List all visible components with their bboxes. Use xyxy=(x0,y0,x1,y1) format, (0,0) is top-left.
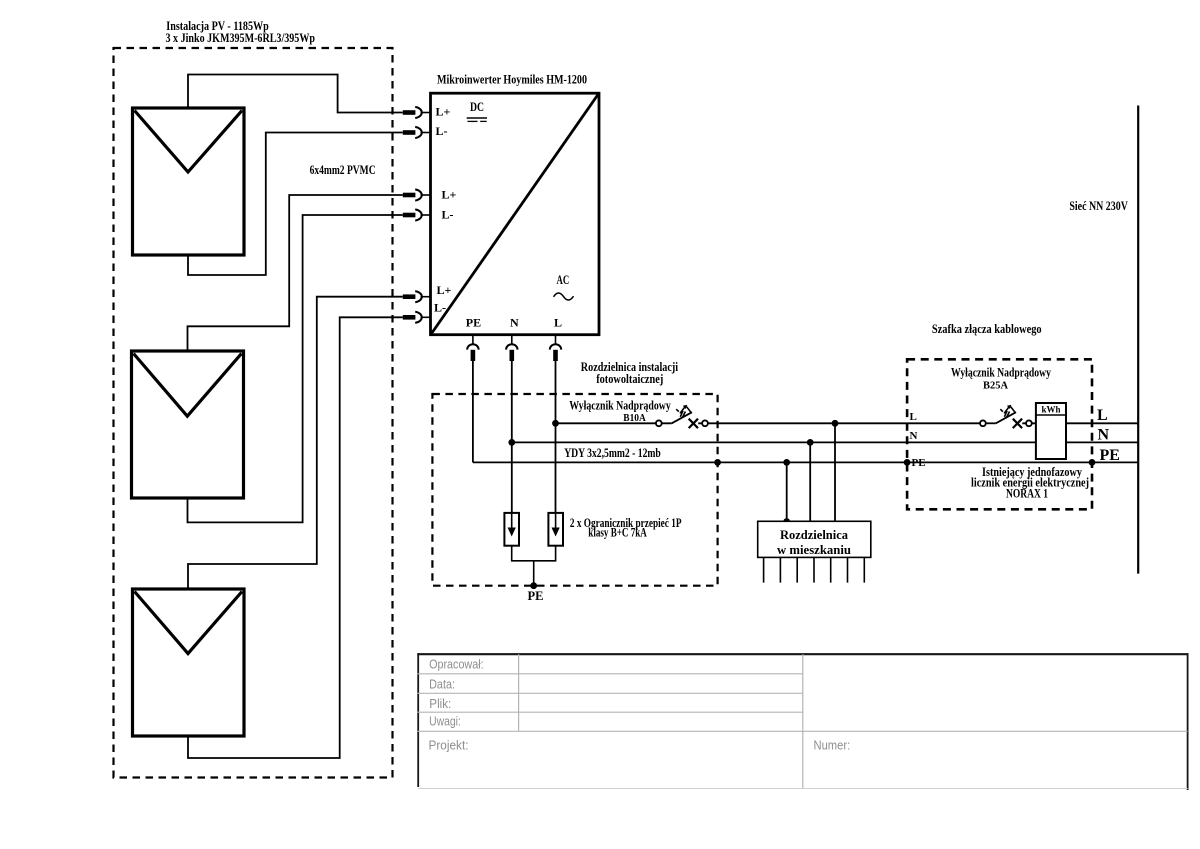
surge arrester label xyxy=(570,516,682,540)
wire PV2+ to inverter input3 xyxy=(188,195,403,351)
wire surge arresters to PE node xyxy=(512,546,556,586)
svg-text:Numer:: Numer: xyxy=(814,738,851,753)
title block frame xyxy=(417,653,1188,790)
svg-text:PE: PE xyxy=(528,589,544,603)
PV panel PV1 xyxy=(133,108,245,255)
svg-text:6x4mm2 PVMC: 6x4mm2 PVMC xyxy=(310,163,376,177)
junction at apartment board top xyxy=(783,518,790,525)
PV panel PV2 xyxy=(132,351,244,498)
svg-text:Projekt:: Projekt: xyxy=(429,738,469,753)
svg-text:L-: L- xyxy=(434,301,446,315)
junction N bus to apartment board xyxy=(807,439,814,446)
title block labels xyxy=(429,656,851,752)
PV array dashed boundary box xyxy=(114,48,393,778)
svg-text:L+: L+ xyxy=(436,105,451,119)
wire N from inverter down to surge arrester F1 xyxy=(511,361,513,513)
DC connector pair input1 xyxy=(403,107,430,118)
AC connector output PE xyxy=(467,336,478,361)
junction PE at cabinet left edge xyxy=(904,459,911,466)
svg-text:Rozdzielnica: Rozdzielnica xyxy=(780,528,849,542)
svg-text:kWh: kWh xyxy=(1042,406,1062,416)
PV array label xyxy=(166,19,316,45)
junction PE bus to apartment board xyxy=(783,459,790,466)
breaker Q1 B10A symbol xyxy=(656,405,708,428)
wire L from inverter down to surge arrester F2 xyxy=(555,361,557,513)
DC connector pair input2 xyxy=(403,127,430,138)
svg-text:Szafka złącza kablowego: Szafka złącza kablowego xyxy=(932,322,1042,336)
svg-text:Plik:: Plik: xyxy=(429,696,451,711)
surge arrester F1 xyxy=(504,513,519,546)
svg-text:YDY 3x2,5mm2 - 12mb: YDY 3x2,5mm2 - 12mb xyxy=(564,446,661,460)
svg-text:Data:: Data: xyxy=(429,677,455,692)
wire PV1+ to inverter input1 xyxy=(188,75,403,113)
wire PV1- to inverter input2 xyxy=(188,133,403,276)
svg-text:w mieszkaniu: w mieszkaniu xyxy=(777,543,851,557)
svg-text:DC: DC xyxy=(470,100,484,114)
svg-text:L+: L+ xyxy=(442,188,457,202)
svg-text:L-: L- xyxy=(436,124,448,138)
junction PE bus at box edge xyxy=(714,459,721,466)
svg-text:fotowoltaicznej: fotowoltaicznej xyxy=(596,372,663,386)
wire PE from inverter down and to PE bus xyxy=(472,361,474,462)
svg-text:N: N xyxy=(910,430,918,442)
svg-text:PE: PE xyxy=(466,316,481,330)
cable junction cabinet dashed box xyxy=(907,359,1092,509)
svg-text:PE: PE xyxy=(1100,447,1120,464)
svg-text:Wyłącznik Nadprądowy: Wyłącznik Nadprądowy xyxy=(951,366,1052,380)
energy meter P1 kWh xyxy=(1036,403,1066,459)
svg-text:L: L xyxy=(1097,407,1108,424)
svg-text:Wyłącznik Nadprądowy: Wyłącznik Nadprądowy xyxy=(569,399,671,413)
energy meter caption xyxy=(971,465,1089,501)
wire PV3- to inverter input6 xyxy=(188,317,403,758)
svg-text:Uwagi:: Uwagi: xyxy=(429,714,461,729)
L bus wire segments xyxy=(556,422,1139,424)
junction L bus to apartment board xyxy=(832,420,839,427)
AC connector output N xyxy=(506,336,517,361)
svg-text:Mikroinwerter Hoymiles HM-1200: Mikroinwerter Hoymiles HM-1200 xyxy=(437,73,587,87)
node PE ground dot xyxy=(530,582,537,589)
AC connector output L xyxy=(550,336,561,361)
breaker Q1 label xyxy=(569,399,671,425)
svg-text:NORAX 1: NORAX 1 xyxy=(1006,487,1048,501)
PV distribution board label xyxy=(581,360,679,386)
svg-text:N: N xyxy=(1098,426,1110,443)
microinverter U1 body xyxy=(431,93,600,335)
DC connector pair input3 xyxy=(403,189,430,200)
svg-text:L+: L+ xyxy=(437,283,452,297)
svg-text:klasy B+C 7kA: klasy B+C 7kA xyxy=(588,526,647,540)
N bus wire xyxy=(512,441,1138,443)
grid LV network vertical line xyxy=(1137,106,1139,574)
breaker Q2 label xyxy=(951,366,1052,392)
svg-text:B25A: B25A xyxy=(983,380,1008,392)
svg-text:L: L xyxy=(554,315,562,329)
wire PE drop to apartment board xyxy=(786,462,788,521)
PV distribution board dashed box xyxy=(432,394,717,586)
PV panel PV3 xyxy=(133,589,245,736)
svg-text:B10A: B10A xyxy=(623,412,646,424)
PE bus wire xyxy=(473,461,1138,463)
DC connector pair input5 xyxy=(403,291,430,302)
svg-text:PE: PE xyxy=(912,457,926,469)
wire PV3+ to inverter input5 xyxy=(188,297,403,589)
surge arrester F2 xyxy=(548,513,563,546)
svg-text:AC: AC xyxy=(557,273,570,287)
wire L drop to apartment board xyxy=(834,423,836,521)
junction PE at cabinet right edge xyxy=(1089,459,1096,466)
wire PV2- to inverter input4 xyxy=(188,215,403,522)
wire N drop to apartment board xyxy=(809,442,811,521)
svg-text:L-: L- xyxy=(442,208,454,222)
svg-text:Opracował:: Opracował: xyxy=(429,656,484,671)
DC connector pair input6 xyxy=(403,312,430,323)
svg-text:N: N xyxy=(510,316,519,330)
U1 AC label and symbol xyxy=(554,273,574,300)
apartment distribution board box xyxy=(758,521,871,557)
svg-text:Sieć NN 230V: Sieć NN 230V xyxy=(1069,199,1128,213)
junction L bus at inverter L drop xyxy=(552,420,559,427)
svg-text:L: L xyxy=(910,411,917,423)
breaker Q2 B25A symbol xyxy=(980,405,1032,428)
U1 DC label and symbol xyxy=(467,100,487,122)
apartment board outgoing circuits xyxy=(764,557,865,582)
DC connector pair input4 xyxy=(403,209,430,220)
svg-text:3 x Jinko JKM395M-6RL3/395Wp: 3 x Jinko JKM395M-6RL3/395Wp xyxy=(166,31,316,45)
junction N bus at inverter N drop xyxy=(508,439,515,446)
